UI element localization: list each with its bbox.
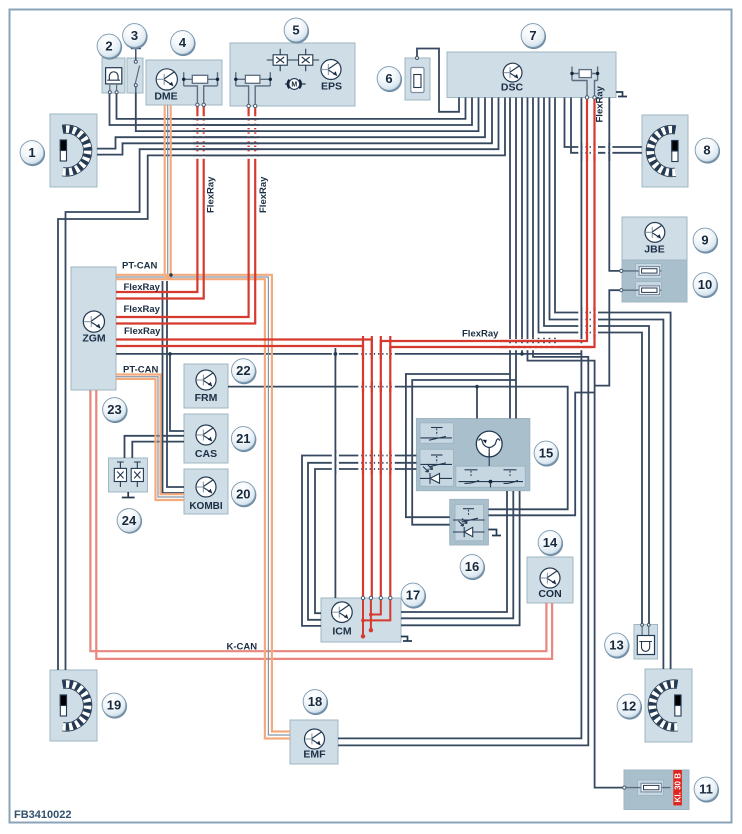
svg-text:6: 6 (385, 71, 392, 86)
wire PT-CAN DME drop right (170, 105, 172, 279)
svg-text:CAS: CAS (195, 448, 217, 460)
wire DSC to EMF right lower (338, 98, 588, 746)
node ICM junction dot 4 (361, 619, 365, 623)
crossing marks: ZGM-EMF line over FlexRay risers (357, 352, 396, 355)
resistor R-DSC (572, 67, 598, 98)
svg-text:FlexRay: FlexRay (124, 282, 161, 293)
callout 12 (617, 694, 642, 720)
control unit symbol U-ICM (332, 602, 353, 623)
wire bus B5 box1 lower to DSC (97, 98, 492, 155)
box 9 JBE junction box electronics (622, 217, 687, 260)
wire ICM internal stub left (362, 598, 364, 636)
svg-text:17: 17 (406, 588, 420, 603)
wire ICM internal n-link outer (363, 598, 390, 620)
svg-text:KOMBI: KOMBI (189, 501, 223, 512)
box 17 ICM control unit (321, 598, 401, 642)
sensor ring box12 (652, 684, 677, 727)
wire DSC to fuse2 and KL30B (528, 98, 625, 788)
crossing marks: DSC bundle through FlexRay pair (509, 338, 512, 350)
node junction ZGM line / ICM drop (334, 352, 338, 356)
wire K-CAN ZGM to CON upper (90, 390, 546, 651)
svg-text:15: 15 (539, 446, 553, 461)
photodiode V1 box15 (420, 464, 452, 484)
control unit symbol U-DME (156, 69, 177, 90)
callout 13 (605, 633, 630, 659)
K-CAN bus (salmon) (90, 390, 552, 659)
svg-text:DSC: DSC (501, 82, 524, 94)
wire DSC to box8 upper (565, 98, 643, 148)
switch S5 box16 (453, 509, 485, 522)
box 10 fuse carrier (622, 260, 687, 302)
resistor R-EPS (236, 72, 270, 106)
node ICM terminator dot 1 (361, 634, 365, 638)
wire PT-CAN row5 ZGM to KOMBI bottom (116, 379, 184, 500)
wire DSC to box15 top pin 2 (515, 98, 517, 419)
control unit symbol U-JBE (645, 223, 665, 243)
wire branch ZGM line to CAS (170, 354, 184, 431)
wire bus B1 box2 right pin to DSC (117, 93, 466, 119)
svg-text:1: 1 (28, 145, 35, 160)
box 11 KL30B power distributor (624, 770, 689, 810)
wire box15 left 3 to ICM left 3 (315, 469, 416, 613)
control unit symbol U-KOMBI (196, 477, 216, 497)
callout 4 (171, 31, 196, 56)
switch S2 box15 top-left (421, 428, 453, 441)
wire FRM chain to box15 top and box16 (228, 387, 568, 510)
callout 19 (102, 693, 127, 719)
control unit symbol U-FRM (196, 370, 216, 390)
wire DSC chain to box16 left upper (406, 374, 510, 517)
wire bus B6 DSC to box19 left pin (66, 98, 499, 671)
node junction ZGM line / bundle (520, 352, 524, 356)
pin circle box6 (416, 57, 419, 60)
svg-text:FRM: FRM (195, 392, 218, 404)
wire PT-CAN center conductor row1 (116, 277, 290, 735)
node junction ZGM line / CAS drop (168, 352, 172, 356)
terminal strip KL. 30 B (673, 770, 682, 805)
wire DSC to JBE fuse1 (609, 98, 621, 271)
wire box16 to right riser (488, 393, 594, 516)
callout 15 (534, 441, 559, 467)
box 19 wheel speed sensor rear left (50, 670, 97, 741)
photodiode V2 box16 (453, 519, 485, 538)
wire DSC to box15 top pin 1 (509, 98, 511, 419)
sensor marker box12 (675, 695, 681, 716)
wire CAS to box24 upper (125, 436, 185, 458)
motor M1 EPS (285, 83, 306, 85)
box 13 plug connector (634, 625, 658, 660)
svg-text:FlexRay: FlexRay (462, 329, 499, 340)
wire box6 to DSC via top loop (417, 49, 459, 112)
node junction FRM line / box15 drop (475, 385, 479, 389)
callout 17 (401, 583, 426, 609)
svg-text:ICM: ICM (332, 626, 352, 638)
svg-text:24: 24 (122, 513, 137, 528)
wire DSC to box13 left pin (539, 98, 643, 625)
box 18 EMF control unit (290, 720, 338, 764)
wire DSC to box13 right pin (544, 98, 649, 625)
callout 21 (231, 427, 256, 453)
svg-text:FlexRay: FlexRay (206, 176, 217, 213)
box 3 switch (127, 58, 143, 93)
lamp L1 EPS (267, 49, 294, 71)
pin circles DSC FlexRay (585, 96, 588, 99)
control unit symbol U-ZGM (83, 311, 104, 332)
sensor ring box1 (63, 129, 88, 172)
ground ICM (401, 637, 412, 642)
svg-text:10: 10 (698, 277, 712, 292)
wire DSC to box8 lower (571, 98, 642, 153)
sensor marker box1 (60, 140, 66, 161)
svg-text:7: 7 (529, 28, 536, 43)
callout 7 (521, 24, 546, 49)
svg-text:PT-CAN: PT-CAN (123, 365, 159, 376)
box 21 CAS car access system (184, 414, 228, 463)
switch S1 box3 (131, 47, 141, 49)
callout 2 (97, 34, 122, 60)
wire bus B4 box1 upper to DSC (97, 98, 485, 149)
box 22 FRM footwell module (184, 364, 228, 408)
control unit symbol U-EPS (321, 60, 341, 80)
wire FlexRay ICM-DSC lower (390, 98, 594, 599)
ground box24 (122, 492, 135, 498)
wire bus B7 DSC to box19 right pin (58, 98, 505, 671)
svg-text:8: 8 (703, 143, 710, 158)
lamp L2 EPS (292, 49, 319, 71)
node junction PT-CAN row1 / DME drop (164, 273, 171, 280)
wire FlexRay ZGM-DME lower (116, 105, 204, 299)
wire ICM internal stub mid (370, 615, 372, 631)
fuse F2 JBE top (621, 270, 661, 272)
fuse F1 box6 (411, 68, 424, 93)
redraw FlexRay verticals over marks (362, 336, 364, 359)
sensor ring box19 (63, 684, 88, 727)
wire PT-CAN DME drop left (164, 105, 166, 275)
crossing marks: box12 box13 wires (577, 311, 599, 314)
svg-text:EMF: EMF (303, 749, 326, 761)
callout 24 (117, 509, 142, 534)
node ICM terminator dot 2 (369, 628, 373, 632)
control unit symbol U-EMF (305, 729, 325, 749)
box 23 ZGM central gateway (71, 267, 116, 390)
wire FlexRay ZGM-DME upper (116, 105, 197, 292)
ground DSC (616, 92, 627, 97)
svg-text:23: 23 (107, 402, 121, 417)
callout 18 (303, 690, 328, 716)
pin circles DME FlexRay (196, 103, 199, 106)
callout 11 (694, 777, 719, 803)
crossing marks: box15 left wires (357, 454, 396, 457)
svg-text:Kl. 30 B: Kl. 30 B (674, 773, 683, 803)
svg-text:20: 20 (236, 486, 250, 501)
lamp L3 box24 (114, 462, 126, 487)
crossing marks: box8 wires (577, 146, 599, 149)
box 20 KOMBI instrument cluster (184, 469, 228, 514)
box 24 lamp unit (109, 458, 148, 492)
wire FlexRay ZGM-EPS lower (116, 106, 255, 324)
wire FlexRay ICM-DSC upper (381, 98, 587, 599)
callout 5 (284, 18, 309, 43)
PT-CAN bus (orange) (116, 105, 290, 739)
box 2 sensor (102, 58, 125, 93)
wire PT-CAN row1 ZGM to EMF outer (116, 275, 290, 732)
svg-text:JBE: JBE (644, 244, 664, 256)
wire PT-CAN row5 ZGM to KOMBI top (116, 375, 184, 495)
svg-text:12: 12 (622, 699, 636, 714)
svg-text:5: 5 (292, 23, 299, 38)
relay circle box15 (476, 431, 502, 457)
wire KOMBI navy pair outer (163, 281, 185, 493)
callout 6 (377, 67, 402, 92)
wire FlexRay ZGM-EPS upper (116, 106, 249, 317)
wire DSC to box12 left pin (550, 98, 664, 670)
connector X13 (642, 625, 649, 636)
box 16 switch unit (450, 499, 489, 545)
pin circles EPS FlexRay (247, 104, 250, 107)
callout 20 (231, 482, 256, 507)
svg-text:PT-CAN: PT-CAN (122, 261, 158, 272)
wire bus B2 box2 left pin to DSC (110, 93, 473, 125)
svg-text:13: 13 (609, 638, 623, 653)
control unit symbol U-DSC (503, 63, 522, 82)
svg-text:CON: CON (538, 588, 561, 600)
switch S4 box15 bottom pair (459, 470, 524, 484)
sensor ring box8 (650, 130, 675, 173)
box 5 EPS control unit (230, 43, 355, 106)
wire box15 left 1 to ICM left 1 (302, 456, 416, 626)
callout 23 (103, 398, 128, 424)
FlexRay bus (red) (116, 98, 595, 599)
wire FlexRay ZGM-ICM upper (116, 340, 372, 599)
callout 8 (695, 138, 720, 164)
wire PT-CAN row1 ZGM to EMF inner (116, 279, 290, 738)
fuse F3 JBE bottom (621, 289, 661, 291)
redraw right column verticals over marks (580, 143, 582, 161)
wire ICM right 1 to box15 bottom pin 1 (401, 491, 507, 612)
ground box16 (488, 530, 501, 536)
wire ICM internal n-link inner (371, 598, 381, 615)
wire PT-CAN center conductor row5 (116, 377, 184, 497)
box 1 wheel speed sensor front left (50, 114, 97, 187)
wire PT-CAN center conductor DME drop (167, 105, 169, 277)
svg-text:K-CAN: K-CAN (227, 642, 258, 653)
wire ZGM to EMF feed line (116, 353, 581, 355)
svg-text:FlexRay: FlexRay (595, 85, 606, 122)
box 7 DSC control unit (447, 52, 616, 98)
svg-text:21: 21 (236, 431, 250, 446)
svg-text:FB3410022: FB3410022 (14, 809, 72, 821)
control unit symbol U-CON (540, 568, 560, 588)
box 6 fuse (405, 58, 430, 100)
callout 9 (693, 228, 718, 254)
svg-text:22: 22 (236, 363, 250, 378)
svg-text:EPS: EPS (321, 81, 342, 93)
callout 10 (693, 273, 718, 299)
svg-text:FlexRay: FlexRay (258, 176, 269, 213)
svg-text:14: 14 (543, 535, 558, 550)
sensor marker box8 (672, 141, 678, 162)
box 15 switch cluster (416, 419, 529, 491)
callout 1 (20, 141, 45, 167)
redraw ICM top drop over marks (334, 348, 336, 360)
pin circles ICM FlexRay (361, 596, 364, 599)
svg-text:9: 9 (701, 233, 708, 248)
box 4 DME control unit (146, 60, 222, 105)
wire branch box15 top pin (476, 387, 478, 419)
wire CAS to box24 lower (132, 442, 184, 458)
svg-text:16: 16 (465, 559, 479, 574)
svg-text:ZGM: ZGM (82, 333, 106, 345)
control unit symbol U-CAS (196, 425, 216, 445)
wire ICM right 3 to box15 bottom pin 3 (401, 491, 520, 625)
callout 22 (232, 359, 257, 384)
wire branch fuse2 (595, 290, 622, 385)
wire DSC chain to box16 left lower (412, 380, 516, 525)
callout 16 (460, 555, 485, 581)
wire DSC to EMF right upper (338, 98, 581, 739)
resistor R-DME (184, 72, 218, 105)
box 14 CON controller (527, 557, 573, 603)
svg-text:M: M (291, 82, 297, 89)
switch S3 box15 mid-left (421, 455, 453, 467)
box 8 wheel speed sensor front right (642, 115, 688, 187)
wire branch ZGM line to ICM top (334, 354, 336, 598)
svg-text:4: 4 (179, 35, 187, 50)
wire K-CAN ZGM to CON lower (96, 390, 552, 659)
sensor marker box19 (60, 695, 66, 716)
FlexRay stubs inside ICM (363, 598, 390, 636)
svg-text:2: 2 (105, 39, 112, 54)
box 12 wheel speed sensor rear right (645, 669, 692, 742)
wire bus B3 box3 to DSC (136, 93, 479, 131)
svg-text:11: 11 (699, 782, 713, 797)
svg-text:19: 19 (107, 698, 121, 713)
callout 3 (123, 24, 148, 49)
fuse F4 KL30B (624, 787, 670, 789)
svg-text:DME: DME (154, 91, 177, 103)
crossing marks: FRM chain line (357, 385, 396, 388)
node ICM junction dot 3 (369, 613, 373, 617)
callout 14 (538, 531, 563, 557)
svg-text:FlexRay: FlexRay (124, 326, 161, 337)
svg-text:18: 18 (308, 694, 322, 709)
wire box15 left 2 to ICM left 2 (308, 463, 416, 620)
wire FlexRay ZGM-ICM lower (116, 346, 363, 598)
wire DSC stub to ZGM line (521, 98, 523, 354)
svg-text:3: 3 (131, 28, 138, 43)
svg-text:FlexRay: FlexRay (124, 304, 161, 315)
sensor icon box2 (106, 68, 122, 84)
wire KOMBI navy pair inner (167, 281, 184, 487)
crossing marks: DME EPS FlexRay drops through bus (196, 115, 199, 159)
wire ICM right 2 to box15 bottom pin 2 (401, 491, 513, 618)
lamp L4 box24 (131, 462, 143, 487)
wire DSC to box12 right pin (555, 98, 671, 670)
